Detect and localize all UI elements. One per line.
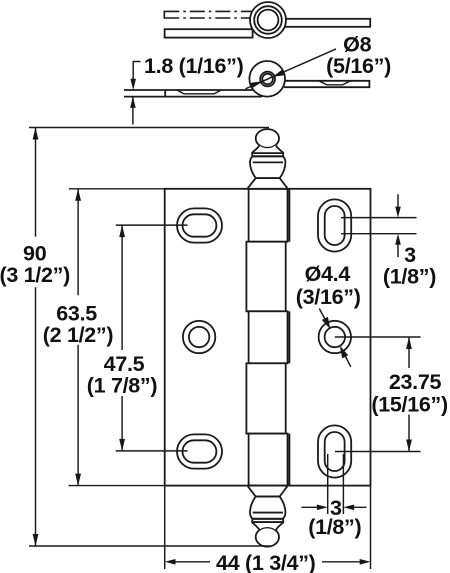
knuckle barrel (end view) outer xyxy=(250,2,286,38)
flare skirt right edge xyxy=(276,146,284,154)
svg-text:(3/16”): (3/16”) xyxy=(296,285,361,309)
right countersink xyxy=(319,81,351,85)
arrow 23.75 down xyxy=(406,440,412,452)
arrow 90 up xyxy=(33,128,39,140)
arrow Ø8 lower-left xyxy=(250,81,263,88)
arrow 44 right xyxy=(360,559,371,565)
phantom leaf (folded position, dash-dot) xyxy=(164,11,252,19)
dim 3 top-right lines xyxy=(341,218,417,234)
arrow 63.5 down xyxy=(75,474,81,486)
dim 23.75 extension top xyxy=(335,336,421,338)
arrow Ø4.4 lower xyxy=(340,346,348,359)
dim 23.75 line xyxy=(408,337,410,452)
dim Ø4.4 leader upper xyxy=(319,309,325,320)
bottom-left slot xyxy=(177,434,222,468)
svg-text:(1/8”): (1/8”) xyxy=(383,265,436,289)
63.5 extension bottom xyxy=(69,485,165,487)
arrow 90 down xyxy=(33,534,39,546)
dim 90 extension top xyxy=(29,127,269,129)
svg-text:(3 1/2”): (3 1/2”) xyxy=(0,263,70,287)
knuckle segment 5 xyxy=(249,434,288,486)
dim 44 line xyxy=(175,561,360,563)
arrow 3 top-right up xyxy=(395,234,401,245)
arrow 3 top-right down xyxy=(395,207,401,218)
arrow 47.5 down xyxy=(119,439,125,451)
right leaf (end view) xyxy=(283,19,370,27)
svg-text:(1/8”): (1/8”) xyxy=(308,515,361,539)
left leaf (end view) xyxy=(165,29,253,37)
left countersink xyxy=(177,90,221,94)
bottom finial (mirror) xyxy=(248,486,287,547)
dim 23.75 extension bottom xyxy=(335,451,421,453)
dim 3 top-right arrows shafts xyxy=(397,194,399,257)
svg-text:3: 3 xyxy=(404,243,416,267)
arrow 3 bottom left-pointing xyxy=(343,505,354,511)
pin inner (side view) xyxy=(262,74,273,85)
arrow Ø4.4 upper xyxy=(322,317,330,329)
arrow 63.5 up xyxy=(75,189,81,201)
collar bottom line xyxy=(253,155,283,157)
left leaf side view top line xyxy=(124,89,254,91)
dim 63.5 line xyxy=(77,189,79,486)
arrow 1.8 up xyxy=(130,97,136,108)
svg-text:63.5: 63.5 xyxy=(56,302,97,326)
dim 3 bottom shafts xyxy=(302,506,367,508)
arrowheads xyxy=(33,70,412,565)
collar top line xyxy=(252,152,284,154)
dim 47.5 line xyxy=(121,225,123,451)
svg-text:Ø4.4: Ø4.4 xyxy=(305,262,351,286)
top-right slot xyxy=(318,199,351,251)
top finial xyxy=(248,129,287,189)
bulge line xyxy=(253,161,283,163)
dim 44 extensions xyxy=(165,487,371,570)
bulge bottom line xyxy=(256,177,280,179)
knuckle segment 4 xyxy=(246,363,285,433)
dim 47.5 extension bottom xyxy=(116,450,188,452)
bulge xyxy=(250,156,285,178)
knuckle segment 3 xyxy=(249,311,288,363)
arrow 44 left xyxy=(165,559,176,565)
dim 90 line xyxy=(35,128,37,547)
svg-text:90: 90 xyxy=(23,242,47,266)
left leaf joint tick xyxy=(164,90,166,97)
63.5 extension top xyxy=(69,188,165,190)
pin outer (side view) xyxy=(260,72,275,87)
svg-text:(5/16”): (5/16”) xyxy=(326,54,391,78)
flare skirt mask xyxy=(252,145,284,153)
svg-text:23.75: 23.75 xyxy=(389,370,442,394)
svg-text:(2 1/2”): (2 1/2”) xyxy=(43,323,114,347)
dim 1.8 leader xyxy=(133,62,141,125)
pin (end view) xyxy=(258,10,279,31)
knuckle (side view) xyxy=(249,61,285,97)
svg-text:1.8 (1/16”): 1.8 (1/16”) xyxy=(144,54,244,78)
arrow 1.8 down xyxy=(130,79,136,90)
dim Ø4.4 leader lower xyxy=(345,356,351,367)
collar ring sides xyxy=(252,153,284,156)
dim 47.5 extension top xyxy=(116,224,188,226)
svg-text:(1 7/8”): (1 7/8”) xyxy=(87,374,158,398)
flare skirt left edge xyxy=(252,146,260,154)
top-left slot xyxy=(177,208,222,242)
knuckle segment 1 xyxy=(249,189,288,242)
right center hole xyxy=(319,321,351,353)
svg-text:47.5: 47.5 xyxy=(104,352,145,376)
left leaf side view bottom line xyxy=(124,96,262,98)
left center hole xyxy=(183,321,215,353)
bottom-right slot xyxy=(318,425,351,477)
right leaf side view xyxy=(283,81,369,87)
dim 3 bottom extension lines xyxy=(328,454,344,514)
dim 90 extension bottom xyxy=(29,545,270,547)
dim Ø8 leader xyxy=(246,49,337,89)
ball xyxy=(256,129,279,148)
svg-text:44 (1 3/4”): 44 (1 3/4”) xyxy=(216,551,316,573)
arrow Ø8 upper-right xyxy=(273,70,285,77)
hinge plate xyxy=(165,189,371,486)
arrow 3 bottom right-pointing xyxy=(317,505,328,511)
svg-text:Ø8: Ø8 xyxy=(343,33,371,57)
svg-text:(15/16”): (15/16”) xyxy=(371,393,448,417)
knuckle barrel (end view) middle xyxy=(254,6,282,34)
arrow 23.75 up xyxy=(406,337,412,349)
arrow 47.5 up xyxy=(119,225,125,237)
knuckle segment 2 xyxy=(246,242,285,312)
base cone xyxy=(248,178,287,189)
